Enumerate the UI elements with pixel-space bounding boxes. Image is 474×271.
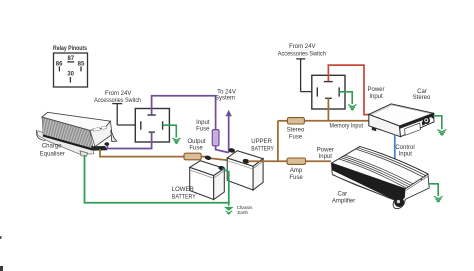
svg-text:From 24V: From 24V — [105, 91, 131, 97]
equaliser shadow under right end — [91, 146, 108, 151]
amp front corner cap — [394, 197, 404, 207]
stereo top seam — [371, 105, 431, 126]
svg-text:BATTERY: BATTERY — [251, 146, 273, 152]
wire: input fuse to upper battery positive (purple) — [216, 146, 229, 153]
svg-text:Car: Car — [417, 89, 427, 95]
relay pin 87 stub (purple) — [151, 109, 153, 115]
wire: battery riser to stereo circuit (brown) — [277, 121, 279, 161]
stereo left face — [369, 114, 401, 136]
amp body silhouette — [332, 147, 430, 209]
wire: output fuse to lower battery (brown) — [201, 156, 207, 158]
wire: to 24V system (purple riser) — [228, 116, 230, 153]
svg-text:Charge: Charge — [42, 144, 62, 150]
amp top face — [332, 147, 429, 189]
wire: lower battery negative to chassis earth (green) — [223, 169, 229, 206]
svg-text:System: System — [215, 95, 235, 101]
svg-text:Input: Input — [196, 120, 210, 126]
svg-text:Fuse: Fuse — [189, 146, 203, 152]
charge equaliser — [36, 112, 116, 156]
ground symbol (middle relay) — [172, 138, 180, 144]
lower battery — [190, 161, 225, 200]
svg-text:Amp: Amp — [290, 168, 303, 174]
stereo fuse — [287, 118, 304, 124]
stereo corner wedge — [431, 113, 434, 119]
svg-text:Accessories Switch: Accessories Switch — [278, 52, 326, 58]
svg-text:Fuse: Fuse — [196, 127, 210, 133]
wire: equaliser output to output fuse (brown) — [100, 149, 184, 157]
svg-text:Fuse: Fuse — [289, 135, 303, 141]
arrowhead: to 24V system — [226, 110, 232, 116]
svg-text:BATTERY: BATTERY — [172, 194, 196, 200]
terminal lug (lower battery front, green) — [218, 165, 225, 170]
svg-text:Input: Input — [319, 154, 333, 160]
amp corner cap centre — [397, 200, 400, 203]
terminal lug (upper battery brown) — [242, 158, 250, 164]
equaliser right mounting tab — [111, 130, 117, 142]
terminal lug (lower battery rear) — [204, 155, 211, 160]
svg-text:Power: Power — [367, 87, 384, 93]
terminal lug (equaliser purple) — [104, 142, 109, 146]
wire: equaliser ground (green) — [85, 155, 229, 203]
equaliser top face — [42, 112, 111, 130]
equaliser end connectors — [93, 127, 100, 131]
car amplifier — [332, 147, 430, 209]
svg-text:87: 87 — [67, 56, 74, 62]
relay pinouts legend — [54, 53, 88, 87]
amp fuse — [287, 158, 306, 164]
amp dark fin band — [332, 163, 406, 202]
relay (car stereo feed) — [312, 75, 345, 109]
wire: upper battery to amp fuse (brown) — [248, 160, 287, 162]
stereo display window — [405, 123, 421, 135]
equaliser front finned face — [42, 117, 93, 148]
svg-text:Power: Power — [317, 148, 334, 154]
wire: riser to stereo fuse (brown) — [278, 120, 288, 122]
equaliser foot at green wire — [80, 151, 88, 156]
equaliser left bracket curl — [36, 130, 45, 141]
ground symbol (right relay) — [348, 105, 356, 111]
stereo side detail — [372, 127, 376, 131]
wire: stereo ground (green) — [434, 116, 442, 129]
equaliser flange edge (dark) — [43, 136, 93, 150]
terminal lug (equaliser brown) — [98, 147, 103, 151]
svg-text:Input: Input — [369, 94, 383, 100]
amp heatsink ridges — [339, 148, 426, 188]
svg-text:86: 86 — [56, 61, 63, 67]
equaliser fins — [43, 117, 93, 148]
wire: relay 30 to charge equaliser (purple) — [107, 132, 151, 148]
svg-text:Car: Car — [337, 192, 347, 198]
svg-text:Memory Input: Memory Input — [330, 123, 364, 129]
svg-text:Stereo: Stereo — [287, 127, 305, 133]
stray mark: bottom left corner — [0, 266, 3, 271]
wire: switch to relay pin 86 (right) — [301, 91, 318, 93]
svg-text:Equaliser: Equaliser — [40, 152, 65, 158]
svg-text:LOWER: LOWER — [172, 187, 195, 193]
stereo button — [422, 121, 425, 126]
wire: relay 30 to memory line (brown) — [327, 98, 329, 121]
svg-text:From 24V: From 24V — [289, 44, 315, 50]
chassis earth symbol — [224, 207, 234, 211]
equaliser mounting flange — [37, 131, 94, 155]
accessories switch feed (middle) — [112, 104, 122, 125]
car stereo — [369, 104, 434, 137]
wire: stereo fuse to stereo memory (brown) — [304, 120, 370, 122]
svg-text:Control: Control — [395, 145, 414, 151]
svg-text:UPPER: UPPER — [251, 139, 272, 145]
wire: amp ground (green) — [428, 184, 438, 196]
relay (24V system feed) — [135, 109, 169, 143]
svg-text:Relay Pinouts: Relay Pinouts — [53, 45, 87, 52]
relay pin 87 stub (red) — [327, 75, 329, 81]
amp right face seam — [406, 176, 428, 190]
wire: stereo control to amp (blue) — [394, 135, 396, 162]
svg-text:Earth: Earth — [238, 210, 249, 215]
svg-text:Fuse: Fuse — [289, 175, 303, 181]
equaliser right end face — [90, 121, 112, 146]
input fuse — [212, 130, 219, 146]
output fuse — [184, 153, 201, 160]
svg-text:Amplifier: Amplifier — [332, 198, 355, 204]
upper battery — [227, 151, 263, 190]
relay pin 85 ground wire (right relay) — [339, 92, 352, 104]
wire: switch to relay pin 86 — [117, 124, 141, 126]
wire: amp fuse to amplifier (brown) — [306, 160, 332, 162]
svg-text:Input: Input — [399, 152, 413, 158]
accessories switch feed (right) — [296, 59, 305, 92]
wire: series link lower to upper battery (brown) — [210, 158, 244, 162]
stereo knob — [423, 117, 430, 124]
wire: relay 87 to input fuse (purple) — [152, 96, 216, 130]
svg-text:Stereo: Stereo — [413, 95, 431, 101]
relay pin 85 ground wire — [163, 125, 177, 137]
ground symbol (amp) — [434, 196, 443, 202]
terminal lug (upper battery purple) — [228, 148, 235, 154]
svg-text:Output: Output — [187, 139, 205, 145]
svg-text:85: 85 — [78, 61, 85, 67]
ground symbol (stereo) — [437, 130, 446, 136]
stray mark: left edge — [0, 236, 2, 239]
wire: relay 87 to stereo power (red) — [328, 65, 368, 115]
stereo faceplate — [400, 113, 435, 136]
amp lower strip seam — [332, 175, 396, 201]
stereo faceplate top band — [400, 113, 434, 128]
stereo top face — [369, 104, 434, 126]
svg-text:30: 30 — [67, 71, 74, 77]
